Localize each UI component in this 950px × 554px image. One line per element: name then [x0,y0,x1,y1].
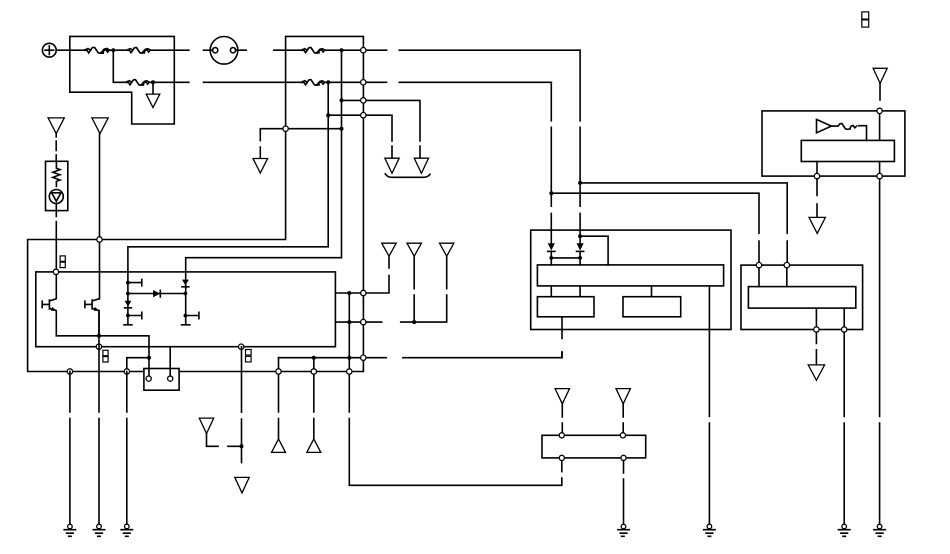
node: feed2 tap to lower-right module [578,181,582,185]
terminal circle S1 [146,376,151,381]
diode D2 (right) between chains [128,290,185,297]
arrow triangle A3 [253,159,268,174]
diode D1 (down) on chain1 [125,301,132,308]
fuse F3 [126,80,150,86]
relay coil block 1 [537,297,594,317]
wire pin B drop x=241.5 [241,347,243,463]
wire module feed lower (y=193) [551,193,759,262]
wire D5 bypass jumper [580,236,608,265]
ground G6 [839,524,850,536]
diode D3 (down) on chain2 [182,280,189,287]
wire TR arrow drop (dashed) [816,179,818,218]
pin circle: bulb wire into control unit [53,269,58,274]
wire emitter bus [56,336,149,358]
connector squares pair 1 [60,256,65,268]
node: chain2 mid junction [184,292,188,296]
pin circle pump bottom 2 [621,455,626,460]
bulb assembly box [46,161,68,210]
node: chain1 lower tap [126,314,130,318]
wire cross-link D4-D5 [551,257,580,259]
diode D4 in relay [548,243,555,265]
wire lower distribution line [279,352,563,358]
relay coil block 2 [623,297,681,317]
wire F2 to connector [150,49,210,51]
node: chain1 upper tap [126,281,130,285]
wire relay output down (x=709.4) [708,286,710,524]
pin circle: T2 wire through box edge [97,237,102,242]
wire control unit right pin 1 [335,256,389,293]
node: chain2 lower tap [184,314,188,318]
node: row5 tap [340,127,344,131]
relay box outline [531,230,731,329]
fuse F1 [84,47,109,53]
pin circle: control unit bottom pin A [96,344,101,349]
node: crosslink left [549,256,553,260]
wire control unit right pin 2 [335,256,446,322]
wire block pins 1 [550,286,552,297]
arrow triangle down A12 [555,389,569,404]
wire row1 to right corner [325,49,580,51]
arrow triangle A5 [407,243,421,256]
transistor Q2 [85,299,99,336]
node: emitter bus corner junction [147,356,151,360]
ground G1 [64,524,75,536]
bulb L1 [49,190,63,204]
arrow triangle down A13 [616,389,630,404]
arrow triangle A4 [382,243,397,256]
pin circle LR3 [814,327,819,332]
transistor Q1 [42,275,56,336]
pin circle pump top 1 [559,433,564,438]
wire ground drop x=70 [69,372,71,525]
wire emitter junction to outline pin [127,358,149,372]
wire vertical 314 to outline pin and arrow [313,358,315,439]
node: row1 junction [340,48,344,52]
switch box (2-terminal) [144,369,179,391]
pin circle TR bottom right [877,173,882,178]
node: pin B drop junction [240,444,244,448]
wire coil block1 output [561,317,563,358]
node: fuse box1 row2 junction [151,80,155,84]
ground arrow inside fuse box1 [146,94,160,108]
wire block pins 2 [579,286,581,297]
arrow triangle A1 [414,158,428,173]
connector squares pair 3 [246,350,252,362]
fuse/relay box outline (large irregular box) [28,36,364,371]
wire TR output down right side [879,162,881,525]
wire LR pin out 1 [815,308,817,327]
node: feed1 tap to lower-right module [549,191,553,195]
IC input chain 1 (x=128) [124,272,142,325]
wire row5 to arrow [260,129,341,159]
brace under arrows A1 A2 [385,174,430,178]
wire row4 to arrow [328,115,392,158]
pin circle on outline left edge [283,126,288,131]
wire bulb to box bottom [55,204,57,211]
terminal circle S2 [168,376,173,381]
wire arrow A5 drop [413,256,415,322]
wire pump ground (dashed) [623,461,625,525]
arrow triangle down A10 [809,217,825,233]
node: distribution-vertical349 [347,356,351,360]
node: row4 tap [326,113,330,117]
node: A5 junction [412,320,416,324]
wire battery to fuse box [56,49,84,51]
pin circle TR top [877,108,882,113]
top-right module inner block [801,140,894,161]
resistor R1 [53,161,60,186]
fuse F2 [127,48,151,54]
wire module feed upper (y=183) [580,183,787,263]
pin circle: control unit bottom pin B [239,344,244,349]
top-right module box [762,111,905,176]
wire T1 to bulb box (dashed) [55,134,57,162]
pin circle LR4 [842,327,847,332]
indicator arrow T1 (bulb branch) [48,118,64,134]
wire A8 to drop junction [207,434,242,447]
wire LR pins in [759,268,787,287]
node: row3 tap [340,98,344,102]
buzzer symbol [817,119,867,140]
wire A13 to pump (dashed) [622,404,624,433]
fuse F4 [301,48,325,54]
ground G7 [874,524,885,536]
lower-right module box [741,265,863,329]
wire fuse box1 row2 drop [113,50,125,82]
battery B1 positive terminal [42,43,56,57]
IC input chain 2 (x=185.5) [182,272,199,325]
fuse F5 [301,80,325,86]
arrow triangle down A9 [808,365,824,380]
arrow triangle up U2 [307,439,321,453]
wire vertical 349 down to fuel pump feed [349,293,562,485]
arrow triangle down A7 [235,477,249,493]
pin circle pump bottom 1 [559,455,564,460]
ground G4 [618,524,629,536]
node: pin1 to vertical 349 [347,291,351,295]
node: crosslink right [578,256,582,260]
wire terminal S2 to control unit [169,347,171,376]
control unit box [36,272,336,347]
wire bulb box to control unit (dashed) [55,211,57,270]
pin circles on outline right edge [361,48,366,53]
ground G2 [93,524,104,536]
wire row2 to right corner [325,81,552,83]
node: chain1 mid tap [126,292,130,296]
ground G3 [121,524,132,536]
pin circle TR bottom left [814,173,819,178]
pin circle LR2 [784,262,789,267]
lower-right module inner block [748,287,855,309]
arrow triangle down A8 (side feed) [199,418,213,434]
wire F1 to F2 with junction [107,49,127,51]
node: row2 junction [326,80,330,84]
wire ground drop x=126.8 [126,372,128,525]
node: Q2 emitter junction [97,334,101,338]
wire feed 1 into relay (x=551) [550,82,552,243]
wire LR pin out 2 [843,308,845,327]
pin circle pump top 2 [620,433,625,438]
wire connector to fuse box 2 [238,49,301,51]
wire junction to ground arrow in box1 [152,84,154,94]
wire block pins 3 [651,286,653,297]
wire A11 to module (dashed) [879,83,881,100]
fuel pump box [542,435,646,458]
arrow triangle A6 [440,243,454,256]
ground G5 [704,524,715,536]
diode D5 in relay [577,243,584,265]
wire LR4 to ground [843,332,845,524]
pin circle LR1 [756,262,761,267]
node: fuse box1 row1 junction [111,48,115,52]
wire feed 2 into relay (x=580) [579,50,581,243]
wire row3 to arrow [342,100,421,158]
connector C1 (2-pin, face view) [210,37,238,65]
wire T2 down to Q2 collector [99,134,101,299]
wire vertical 278 to outline pin and arrow [278,358,280,439]
wire ground drop x=99.5 [98,311,100,525]
wire bus row1 feed (vertical 341 to IC) [186,50,342,272]
relay internal block [537,265,723,286]
wire power in from top [879,114,881,141]
arrow triangle down A11 (top feed) [873,68,887,83]
fuse box 1 outline [70,36,175,124]
wire TR pin to arrow [816,162,818,174]
arrow triangle up U1 [272,439,286,453]
arrow triangle A2 [385,158,399,173]
wire LR3 to arrow (dashed) [815,332,817,365]
wire A12 to pump (dashed) [561,404,563,433]
node: pin2 to vertical 349 [347,320,351,324]
wire emitter junction to switch terminal [148,358,150,376]
node: D5 anode tap [578,234,582,238]
node: distribution-vertical314 [312,356,316,360]
wire bus row2 feed (vertical 328 to IC) [128,82,328,272]
connector squares pair 2 [103,350,108,362]
wire F3 out of box1 [149,81,301,83]
pin circles on outline bottom edge [67,369,72,374]
indicator arrow T2 [92,118,108,134]
connector squares top-right [862,12,869,27]
